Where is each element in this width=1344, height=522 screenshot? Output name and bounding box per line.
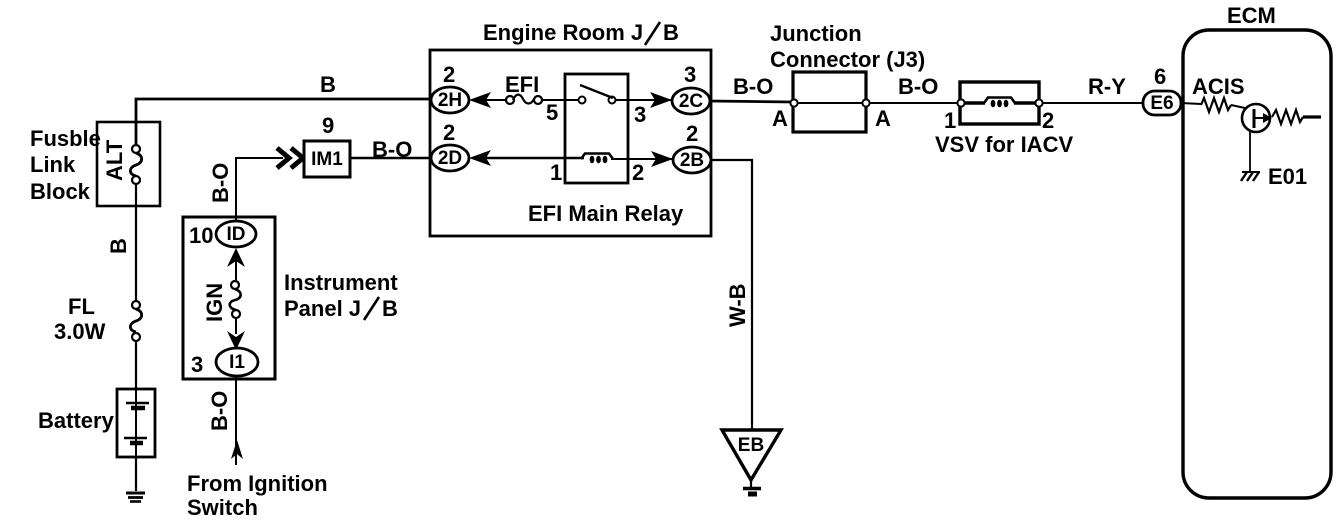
svg-text:B-O: B-O [208, 163, 233, 203]
arrow right into 2C [650, 92, 672, 108]
junction connector J3 label [770, 21, 925, 72]
svg-text:FL: FL [68, 294, 95, 319]
connector 2C [672, 88, 710, 114]
svg-text:Fusble: Fusble [30, 126, 101, 151]
wire 2H to EFI fuse [484, 99, 506, 101]
svg-text:IM1: IM1 [311, 149, 343, 170]
svg-text:3.0W: 3.0W [54, 319, 106, 344]
wire relay to 2C [615, 99, 673, 101]
svg-text:1: 1 [944, 108, 956, 133]
connector I1 [216, 348, 258, 376]
VSV coil [962, 101, 985, 105]
svg-text:B-O: B-O [207, 391, 232, 431]
node 2 (VSV right) [1035, 99, 1042, 106]
svg-text:Panel J: Panel J [284, 296, 361, 321]
svg-text:2: 2 [443, 120, 455, 145]
wire: ID up and over to IM1 [236, 158, 283, 221]
svg-text:EFI: EFI [505, 72, 539, 97]
svg-text:2: 2 [632, 160, 644, 185]
Engine Room J/B box [430, 50, 711, 236]
svg-text:IGN: IGN [202, 283, 227, 322]
svg-text:A: A [772, 106, 788, 131]
wire: E6 to ACIS resistor [1181, 103, 1201, 104]
arrow right into 2B [651, 151, 673, 167]
wire: B from ALT down to battery [135, 184, 137, 301]
VSV for IACV box [960, 82, 1039, 124]
svg-text:Connector (J3): Connector (J3) [770, 47, 925, 72]
wire: J3 to VSV [869, 102, 960, 104]
svg-text:A: A [875, 106, 891, 131]
svg-text:2: 2 [686, 121, 698, 146]
svg-text:6: 6 [1154, 64, 1166, 89]
wire: battery to ground [135, 457, 137, 491]
wire: IM1 to 2D [350, 157, 433, 160]
svg-text:3: 3 [191, 352, 203, 377]
chevrons >> into IM1 [277, 148, 289, 168]
junction connector J3 box [793, 72, 866, 132]
svg-text:ECM: ECM [1227, 3, 1276, 28]
fusible link block box [97, 122, 160, 206]
wire: 2C to junction connector [710, 101, 793, 102]
arrow left into 2H [469, 92, 491, 108]
arrow up into ID [227, 248, 245, 267]
svg-text:Switch: Switch [187, 495, 258, 520]
svg-text:B: B [320, 72, 336, 97]
connector 2B [673, 147, 711, 173]
battery [117, 389, 155, 457]
wire switch to arrow [235, 318, 237, 334]
ECM box [1183, 30, 1331, 498]
svg-text:B: B [106, 238, 131, 254]
relay switch [579, 97, 586, 104]
svg-text:2C: 2C [679, 91, 704, 112]
Fusible Link Block label [30, 126, 101, 204]
wire: fuse to battery [135, 341, 137, 389]
ground (battery) [126, 492, 145, 495]
node A (left) [790, 99, 797, 106]
ignition switch (circle-squiggle-circle) [231, 281, 239, 289]
arrow up (from ignition switch) [231, 440, 243, 459]
connector IM1 [304, 141, 350, 177]
svg-text:E6: E6 [1150, 93, 1173, 114]
svg-text:ACIS: ACIS [1192, 74, 1245, 99]
svg-text:2: 2 [1042, 108, 1054, 133]
arrow left into 2D [469, 150, 491, 166]
svg-text:3: 3 [684, 62, 696, 87]
svg-text:9: 9 [322, 113, 334, 138]
wire: from ignition switch up to I1 [235, 376, 237, 465]
svg-text:B-O: B-O [733, 74, 773, 99]
svg-text:EB: EB [738, 435, 764, 456]
connector 2D [431, 145, 469, 171]
svg-text:ID: ID [227, 224, 246, 245]
svg-text:From Ignition: From Ignition [187, 471, 328, 496]
resistor (emitter) [1272, 110, 1303, 124]
relay coil [581, 154, 613, 160]
svg-text:Engine Room J: Engine Room J [483, 20, 643, 45]
svg-text:Instrument: Instrument [284, 270, 398, 295]
arrow down into I1 [227, 331, 245, 350]
node 1 (VSV left) [957, 99, 964, 106]
svg-text:Block: Block [30, 179, 91, 204]
svg-text:Link: Link [30, 152, 76, 177]
svg-text:2D: 2D [438, 148, 462, 169]
wire coil to 2B [611, 158, 674, 160]
Instrument Panel J/B box [183, 217, 275, 379]
ground (EB) [750, 480, 752, 487]
wire: VSV to E6 [1042, 102, 1144, 104]
svg-text:W-B: W-B [725, 283, 750, 327]
connector ID [216, 221, 256, 247]
connector E6 [1143, 91, 1181, 115]
svg-text:2: 2 [443, 62, 455, 87]
svg-text:2B: 2B [680, 150, 704, 171]
wire ID to switch [235, 261, 237, 281]
svg-text:EFI Main Relay: EFI Main Relay [528, 201, 684, 226]
wire fuse to relay [541, 99, 581, 101]
svg-text:2H: 2H [438, 90, 462, 111]
wire 2D to relay coil [484, 157, 584, 160]
svg-text:ALT: ALT [102, 139, 127, 181]
wire: 2B to EB ground [711, 160, 752, 429]
svg-text:B-O: B-O [372, 137, 412, 162]
svg-text:5: 5 [546, 100, 558, 125]
svg-text:1: 1 [550, 160, 562, 185]
svg-text:R-Y: R-Y [1088, 74, 1126, 99]
svg-text:E01: E01 [1268, 164, 1307, 189]
svg-text:B: B [663, 20, 679, 45]
ground E01 (chassis) [1242, 171, 1260, 173]
fusible link ALT (circle-squiggle-circle) [132, 145, 140, 153]
svg-text:I1: I1 [229, 352, 245, 373]
connector 2H [431, 87, 469, 113]
svg-text:B: B [382, 296, 398, 321]
svg-text:VSV for IACV: VSV for IACV [935, 132, 1073, 157]
fuse FL 3.0W [132, 301, 140, 309]
node A (right) [862, 99, 869, 106]
relay box [565, 74, 628, 183]
svg-text:10: 10 [189, 223, 213, 248]
svg-text:3: 3 [634, 102, 646, 127]
svg-text:Battery: Battery [38, 408, 115, 433]
transistor (ECM output) [1242, 104, 1270, 132]
ground connector EB [722, 430, 781, 480]
wire resistor to transistor [1231, 105, 1245, 108]
wire transistor to ground [1249, 130, 1251, 171]
svg-text:Junction: Junction [770, 21, 862, 46]
svg-text:B-O: B-O [898, 74, 938, 99]
wire: B feed from fusible link to 2H [136, 99, 433, 148]
